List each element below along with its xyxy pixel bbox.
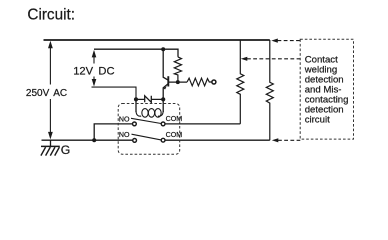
resistor R2 (horizontal, base series) [187, 78, 212, 86]
node: bottom rail junction [92, 138, 96, 142]
svg-text:COM: COM [166, 115, 183, 123]
contact row1 COM terminal [161, 122, 165, 126]
svg-text:12VDC: 12VDC [73, 66, 114, 78]
contact row2 COM terminal [161, 138, 165, 142]
svg-text:NO: NO [119, 115, 130, 123]
wire: bottom rail left segment [42, 139, 133, 141]
transistor Q1 base wire [168, 81, 187, 83]
ground stub [50, 140, 52, 146]
detection circuit dashed box [300, 39, 353, 139]
wire: bottom rail right segment [165, 139, 270, 141]
wire: row1 COM to branch-1 [165, 123, 240, 125]
svg-text:G: G [61, 143, 71, 157]
svg-text:COM: COM [166, 131, 183, 139]
dashed arrow (bottom, to bottom rail corner) [278, 139, 300, 141]
dashed arrow (middle, to branch-1) [247, 58, 300, 60]
relay coil leads [136, 99, 163, 112]
ground hatches [41, 147, 60, 156]
svg-text:circuit: circuit [305, 114, 330, 125]
resistor R3 (branch-1 vertical) with leads [237, 40, 244, 124]
diode N across coil [136, 96, 163, 103]
contact row2 NO terminal [133, 139, 137, 143]
dimension arrow 12V DC (shaft, broken at label) [93, 52, 95, 86]
wire: 12V return to coil [92, 87, 137, 99]
wire: step wire to row1 NO [94, 124, 132, 140]
node: 12V rail / collector junction [161, 47, 165, 51]
svg-text:Circuit:: Circuit: [27, 7, 75, 24]
node: coil right [161, 97, 165, 101]
transistor Q1 emitter wire [163, 84, 168, 100]
contact row1 NO terminal [133, 122, 137, 126]
node: coil left [134, 97, 138, 101]
arrowhead up (250V) [48, 41, 53, 49]
svg-text:250VAC: 250VAC [26, 88, 67, 99]
transistor Q1 collector wire [163, 49, 168, 80]
resistor R4 (right edge vertical) with leads [266, 40, 273, 140]
svg-text:NO: NO [119, 131, 130, 139]
arrowhead up (12V) [92, 50, 97, 58]
relay coil loops [136, 109, 163, 118]
transistor Q1 emitter arrowhead [163, 86, 167, 89]
node: base/resistor junction [176, 80, 180, 84]
dimension arrow 250V AC (shaft, broken at label) [49, 43, 51, 138]
transistor Q1 bar [167, 76, 169, 86]
relay dashed box [118, 104, 180, 155]
wire: top AC rail [44, 39, 270, 41]
dashed arrow (top, to right corner) [278, 40, 301, 42]
contact row2 blade [132, 134, 162, 140]
arrowhead down (250V) [48, 132, 53, 140]
contact row1 blade [131, 118, 161, 123]
terminal circle (output) [212, 80, 216, 84]
ground bar [41, 145, 60, 147]
wire: 12V DC rail [94, 49, 178, 57]
arrowhead down (12V) [92, 79, 97, 87]
resistor R1 (vertical, base pull-up) [174, 57, 181, 82]
